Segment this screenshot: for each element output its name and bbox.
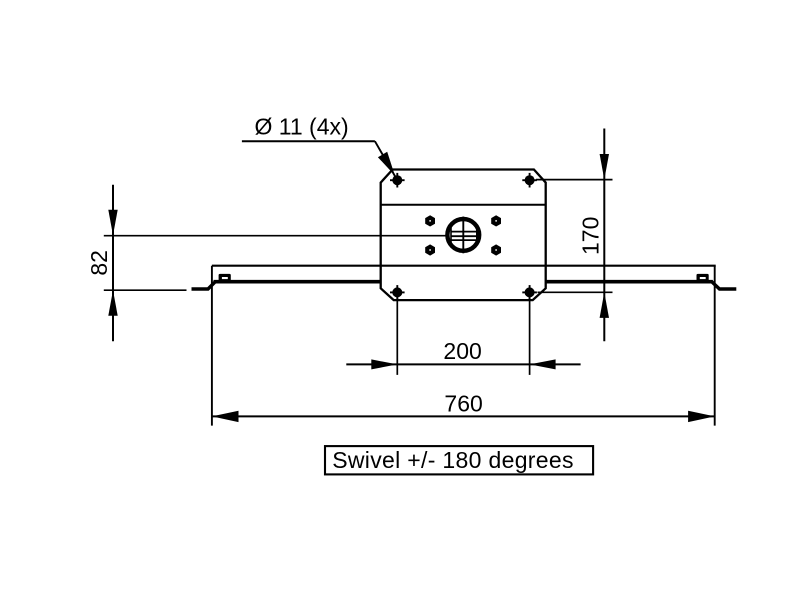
leader Ø11 (4x): horizontal line <box>242 140 375 142</box>
traverse bar right end edge / 760 extension line right <box>714 266 716 426</box>
right clamp block on bar <box>697 274 709 281</box>
dimension 82: upper arrow (down) <box>108 210 117 236</box>
dimension 82: lower extension line <box>104 289 187 291</box>
traverse bar right end hook <box>712 282 737 290</box>
dimension 760: right arrow (right-pointing) <box>688 411 715 422</box>
svg-text:760: 760 <box>444 391 482 417</box>
plate upper internal edge <box>381 204 546 206</box>
nut bottom-right <box>491 244 501 255</box>
dimension 200: right extension line <box>529 295 531 375</box>
dimension 200: dimension line <box>346 363 580 365</box>
traverse bar left end edge / 760 extension line left <box>211 266 213 426</box>
horizontal centerline y=235.7 <box>104 235 446 237</box>
dimension 170: upper arrow (down) <box>600 154 609 180</box>
dimension 170: dimension line <box>603 129 605 342</box>
dimension 82: text <box>86 250 112 276</box>
ring internal vertical centerline <box>462 217 464 254</box>
dimension 82: dimension line <box>112 185 114 342</box>
dimension 200: text <box>443 338 481 364</box>
central swivel ring <box>447 219 479 251</box>
dimension 170: lower arrow (up) <box>600 292 609 318</box>
dimension 200: left arrow (right-pointing) <box>371 359 397 369</box>
dimension 200: left extension line <box>396 295 398 375</box>
leader Ø11 (4x): arrowhead <box>378 152 395 176</box>
ring internal left rail <box>450 227 452 243</box>
nut bottom-left <box>425 244 435 255</box>
hole top-left (Ø11) <box>390 173 405 188</box>
traverse bar bottom thick edge right segment <box>546 280 713 284</box>
traverse bar top edge (also plate lower internal edge) <box>212 265 716 267</box>
ring internal rung 2 <box>451 235 477 237</box>
svg-text:Ø 11 (4x): Ø 11 (4x) <box>255 114 349 140</box>
svg-text:82: 82 <box>86 250 112 276</box>
dimension 170: text <box>578 217 604 255</box>
ring internal right rail <box>476 227 478 243</box>
traverse bar bottom thick edge left segment <box>214 280 381 284</box>
leader Ø11 (4x): diagonal line <box>375 141 396 178</box>
dimension 82: lower arrow (up) <box>108 290 117 316</box>
svg-text:200: 200 <box>443 338 481 364</box>
dimension 170: lower extension line <box>538 291 613 293</box>
left clamp block on bar <box>219 274 231 281</box>
dimension 760: text <box>444 391 482 417</box>
dimension 200: right arrow (left-pointing) <box>530 359 556 369</box>
ring internal rung 3 <box>451 239 477 241</box>
hole top-right (Ø11) <box>522 173 537 188</box>
dimension 760: dimension line <box>212 415 715 417</box>
plate outline (octagonal mounting plate) <box>381 170 546 301</box>
svg-text:170: 170 <box>578 217 604 255</box>
nut top-left <box>425 215 435 226</box>
leader Ø11 (4x): text <box>255 114 349 140</box>
hole bottom-right (Ø11) <box>522 285 537 300</box>
svg-text:Swivel +/- 180 degrees: Swivel +/- 180 degrees <box>332 447 574 473</box>
dimension 760: left arrow (left-pointing) <box>212 411 239 422</box>
ring internal rung 1 <box>451 231 477 233</box>
swivel label box <box>325 446 593 474</box>
hole bottom-left (Ø11) <box>390 285 405 300</box>
swivel label text <box>332 447 574 473</box>
traverse bar left end hook <box>192 282 216 290</box>
nut top-right <box>491 215 501 226</box>
dimension 170: upper extension line <box>536 179 613 181</box>
